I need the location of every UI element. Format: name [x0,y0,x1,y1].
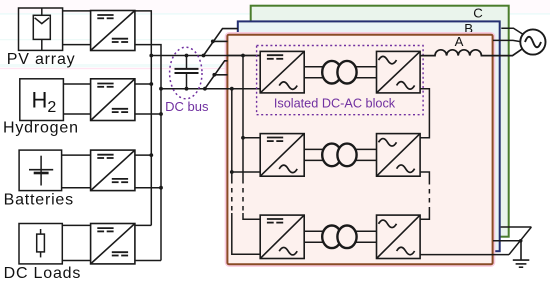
vertical bus L- in module [232,89,260,255]
artifact band top [0,0,550,69]
transformer T1 wires [304,67,376,78]
dc-ac converter row2 [260,134,304,177]
svg-text:Isolated DC-AC block: Isolated DC-AC block [274,97,396,111]
dc-dc converter U1 (PV) [91,11,135,51]
ac-ac converter row3 [377,215,421,258]
wire PV to U1 bottom [63,44,91,46]
wire + fan diagonal [204,29,239,56]
wire DC bus - rail [161,88,260,90]
wire U4+ [135,224,151,226]
wire phase B output [493,40,520,41]
transformer T2 [322,144,356,167]
wire bus + into module A [227,55,260,57]
svg-text:A: A [455,34,464,49]
ac-ac converter row1 [377,51,421,93]
wire batteries to U3 top [62,154,91,156]
inductor L1 phase A [420,49,522,56]
wire bus - into module A [227,88,260,90]
AC source G1 [520,29,545,54]
svg-text:DC Loads: DC Loads [4,265,82,282]
wire row2 out bottom to row3 top (dashed section) [420,172,429,219]
dc-ac converter row3 [260,215,304,258]
wire H2 to U2 top [63,83,90,85]
wire U1- to bus L2 [135,45,161,261]
wire - fan diagonal [205,61,228,89]
wire loads to U4 bottom [62,260,90,262]
dc-ac converter row1 [260,51,304,93]
fan junction dots [202,40,217,91]
wire row1 out bottom to row2 top [420,89,429,138]
wire U2+ [135,83,151,85]
phase box C [251,6,509,237]
dc-dc converter U2 (hydrogen) [91,79,135,121]
wire neutral C [501,226,532,228]
wire row2 - input [232,171,260,173]
hydrogen box H2 [20,79,64,121]
transformer T1 [322,61,356,84]
svg-text:DC bus: DC bus [165,99,209,114]
dc-dc converter U4 (DC loads) [91,224,135,264]
batteries box [19,150,62,191]
isolated DC-AC block dotted outline [257,46,424,115]
phase box A halo [227,35,492,265]
module bus junction dots [230,54,245,174]
ground fan diagonal [509,227,531,255]
wire PV to U1 top [63,10,91,12]
junction dots column L1 L2 [149,54,163,190]
transformer T3 [322,226,356,249]
wire batteries to U3 bottom [62,187,91,189]
junction dot ground [519,239,523,243]
wire H2 to U2 bottom [63,113,90,115]
phase box B [238,21,500,251]
wire U4- [135,260,161,262]
transformer T3 wires [304,231,376,242]
phase box A [227,35,492,265]
wire U1+ to bus L1 [135,11,151,226]
wire loads to U4 top [62,224,90,226]
wire U3+ [135,154,151,156]
DC bus dashed ellipse [170,47,202,99]
DC loads box [19,224,62,264]
wire U2- [135,113,161,115]
wire phase C output [501,28,523,34]
transformer T2 wires [304,149,376,160]
svg-text:C: C [473,5,483,20]
dc-dc converter U3 (batteries) [91,150,135,191]
svg-text:Batteries: Batteries [4,192,74,209]
wire row2 + input [243,137,260,139]
wire neutral B [493,240,521,242]
capacitor C1 (DC bus) [175,56,199,89]
wire neutral A (bottom) [420,254,509,256]
wire U3- [135,187,161,189]
svg-text:PV array: PV array [7,51,76,68]
PV array box [19,8,63,50]
svg-text:Hydrogen: Hydrogen [3,120,79,137]
wire DC bus + rail [151,55,260,57]
vertical bus L+ in module [243,56,260,220]
ground symbol [513,241,530,267]
ac-ac converter row2 [377,134,421,177]
